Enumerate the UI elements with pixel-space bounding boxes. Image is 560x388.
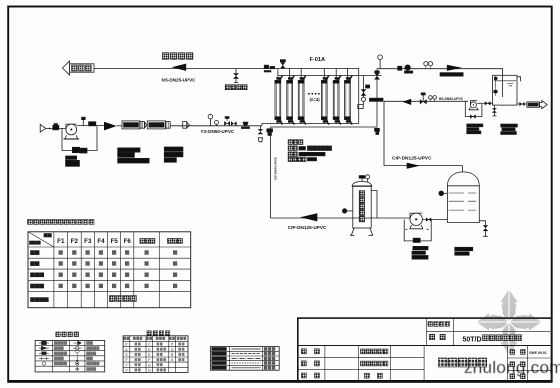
motor valve on manifold (280, 60, 285, 69)
label 图例表 title (56, 332, 79, 337)
ellipsis (n=4) (308, 93, 320, 102)
node raw water tank flag (62, 61, 94, 75)
discharge sleeve (527, 102, 540, 107)
svg-text:NS-DN25-UPVC: NS-DN25-UPVC (162, 78, 197, 83)
valve F5 on product riser (374, 69, 380, 127)
wire concentrate return line (94, 68, 265, 70)
label 审核 (302, 361, 320, 366)
legend symbols col2 (73, 341, 82, 371)
label 设计 (302, 373, 320, 378)
raw water pump (64, 124, 80, 139)
table header texts (57, 238, 131, 245)
feed inlet arrow (40, 124, 46, 132)
svg-text:T: T (125, 363, 127, 367)
label table title 各工作程序阀门开启状态 (28, 220, 95, 225)
wire pump to CIP tank (422, 219, 447, 221)
label 项目 (430, 334, 446, 339)
permeate sampling branch (358, 76, 383, 109)
label product pipe bar (440, 73, 463, 76)
CIP return line (271, 217, 411, 219)
table valve status (28, 232, 191, 308)
concentrate drain branch with valve (233, 69, 239, 83)
valve before tank (477, 101, 492, 105)
valve product black (398, 66, 402, 70)
table instrument symbols (123, 336, 188, 373)
gauge on product line (378, 55, 383, 69)
arrow product right (447, 65, 462, 71)
header 反洗泵 (168, 239, 183, 244)
arrow CIP supply right (407, 163, 420, 169)
pressure gauge pair (208, 114, 218, 126)
svg-text:CIP-DN125-UPVC: CIP-DN125-UPVC (392, 155, 432, 161)
valve on feed line (231, 121, 237, 126)
label 原水箱 (72, 65, 92, 71)
svg-text:F1: F1 (57, 238, 65, 245)
outlet line (517, 103, 527, 105)
CIP tank drain (479, 221, 488, 237)
valve pump to tank (426, 217, 431, 221)
label 浓水排放 (225, 85, 247, 90)
valve at riser base (375, 128, 380, 134)
svg-text:F2: F2 (71, 238, 79, 245)
CIP chemical tank (447, 166, 479, 223)
auto valve with actuator (224, 117, 230, 126)
row label 下反洗 (31, 284, 44, 288)
inline sensor (242, 122, 250, 129)
membrane module 3 (298, 69, 306, 125)
label 项目负责人 (361, 349, 388, 354)
tank drain valve (492, 105, 497, 116)
gauge pair on backwash line (429, 96, 437, 102)
cartridge filter 保安过滤器 (350, 175, 373, 236)
label 仪表符号 title (147, 331, 170, 335)
svg-text:G: G (148, 363, 151, 367)
rotameter (405, 65, 413, 73)
label backwash pump bars (467, 124, 483, 134)
filter inlet gauge (342, 209, 352, 213)
svg-text:CIP-DN125-UPVC: CIP-DN125-UPVC (288, 225, 327, 230)
clean water tank (493, 75, 521, 105)
svg-text:F6: F6 (124, 238, 132, 245)
svg-text:(n=4): (n=4) (310, 97, 321, 102)
wire filter outlet (170, 125, 262, 127)
value 50T/D中水回用处理 (463, 335, 522, 344)
svg-text:F: F (148, 358, 150, 362)
sand filter (122, 121, 147, 129)
table legend symbols (35, 340, 105, 372)
label sand filter specs (118, 148, 149, 163)
title 工艺流程图 (439, 358, 487, 367)
cell 手动操作 spanning (110, 296, 137, 302)
svg-text:F4: F4 (97, 238, 105, 245)
carbon filter (147, 121, 170, 129)
manifold inlet valves black (264, 65, 274, 72)
product line to tank (377, 69, 503, 97)
membrane module 1 (275, 69, 283, 125)
legend symbols col1 (39, 341, 49, 367)
pipe coupling (183, 122, 190, 129)
arrow concentrate flow left (171, 64, 186, 71)
membrane module 6 (345, 69, 353, 125)
legend names col2 (87, 342, 100, 371)
CIP riser down (270, 127, 272, 218)
label carbon filter specs (164, 147, 183, 162)
wire to filters (117, 125, 122, 127)
label CIP tank bars (455, 247, 473, 255)
backwash pump (465, 101, 482, 117)
row label 反洗 (31, 262, 40, 266)
membrane module 2 (287, 69, 294, 125)
valve feed black (49, 124, 59, 130)
flow indicator pair (424, 62, 433, 69)
pipe legend contents (212, 348, 275, 370)
sampling valve under line (258, 126, 263, 142)
svg-text:F-01A: F-01A (310, 57, 326, 63)
svg-text:50T/D: 50T/D (463, 337, 482, 344)
backwash line (384, 100, 468, 102)
valve backwash with vent stem (420, 93, 427, 105)
label 制图 (365, 373, 383, 378)
membrane rack top manifold (265, 69, 359, 124)
svg-text:F: F (125, 358, 127, 362)
header 原水泵 (140, 239, 155, 244)
discharge arrow (540, 101, 548, 109)
watermark zhulong pinwheel logo (476, 289, 542, 355)
label 浓水回流 (163, 53, 193, 59)
CIP pump (404, 213, 431, 242)
tank level gauge tube (494, 75, 497, 96)
legend names col1 (54, 342, 66, 366)
label 专业负责人 (361, 361, 388, 366)
label 工程名称 (428, 322, 450, 327)
row label 上反洗 (31, 273, 44, 277)
backwash bypass valve (470, 114, 476, 118)
label raw pump specs (66, 156, 80, 166)
wire pump discharge (77, 125, 104, 127)
svg-text:Q: Q (171, 348, 174, 352)
valve black on discharge (89, 122, 96, 126)
label membrane specs (288, 140, 331, 162)
row label 化学清洗 (31, 298, 49, 302)
label 审定 (302, 349, 320, 354)
header 阀门/工作程序 (30, 234, 52, 245)
cell state marks (59, 251, 177, 288)
valve on CIP riser top (267, 129, 273, 136)
membrane module 5 (333, 69, 341, 125)
CIP tank level gauge (439, 191, 447, 196)
label tank bars (501, 124, 518, 134)
svg-text:GWF-09-01: GWF-09-01 (529, 351, 547, 355)
pump bypass loop with valve (62, 126, 97, 153)
instrument table contents (123, 337, 186, 373)
backwash downcomer (384, 101, 463, 165)
table pipe legend (210, 347, 279, 371)
label 日期 (510, 374, 525, 379)
label 比例 (510, 362, 525, 367)
svg-text:CIP-DN40-UPVC: CIP-DN40-UPVC (274, 156, 278, 180)
arrow CIP return left (300, 213, 317, 221)
arrow backwash left (403, 99, 412, 105)
svg-text:F5: F5 (111, 238, 119, 245)
label 图号 (510, 350, 525, 355)
booster flow arrow (104, 122, 117, 131)
outlet valve black (519, 102, 524, 106)
title block (298, 318, 552, 382)
filter outlet pipe (371, 191, 377, 219)
svg-text:HS-DN50-UPVC: HS-DN50-UPVC (439, 97, 464, 101)
row label 运行 (31, 251, 40, 255)
svg-text:F3: F3 (84, 238, 92, 245)
label 保安过滤器 vertical (359, 191, 364, 222)
bottom feed manifold (262, 124, 359, 126)
label CIP pump bars (412, 246, 428, 259)
svg-text:YS-DN50-UPVC: YS-DN50-UPVC (201, 129, 235, 134)
bottom drain manifold (271, 126, 378, 128)
wire feed suction (46, 127, 66, 129)
membrane module 4 (321, 69, 329, 125)
permeate manifold (278, 75, 382, 77)
vent valve above line (82, 117, 86, 125)
